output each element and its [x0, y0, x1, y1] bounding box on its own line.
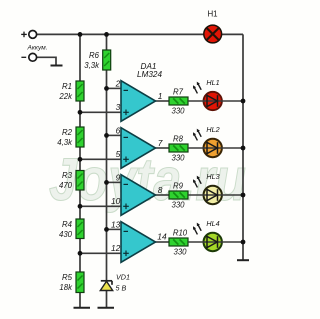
node right row2 [241, 146, 246, 151]
lamp H1 [204, 10, 222, 43]
svg-text:4,3k: 4,3k [57, 138, 73, 147]
svg-text:H1: H1 [207, 10, 217, 19]
svg-text:Аккум.: Аккум. [27, 44, 48, 51]
LED HL4 [188, 219, 243, 251]
svg-text:R9: R9 [173, 182, 184, 191]
svg-text:9: 9 [116, 172, 121, 182]
svg-text:8: 8 [158, 185, 163, 195]
node right row1 [241, 99, 246, 104]
node mid pin2 [104, 86, 109, 91]
svg-text:HL1: HL1 [206, 78, 219, 87]
svg-text:330: 330 [173, 248, 187, 257]
wire minus terminal to ground [37, 57, 56, 65]
wire row2 output [156, 147, 170, 149]
wire op4 minus input [107, 228, 122, 230]
node left pin3 [78, 110, 83, 115]
svg-text:22k: 22k [58, 92, 73, 101]
op-amp U3 (DA1.3) [111, 172, 163, 215]
svg-text:10: 10 [111, 196, 121, 206]
svg-text:7: 7 [158, 138, 163, 148]
zener diode VD1 [100, 273, 130, 293]
resistor R7 [169, 88, 188, 116]
ground bar battery [51, 65, 63, 67]
resistor R4 [59, 219, 84, 239]
resistor R9 [169, 182, 188, 210]
wire H1 to right rail [222, 33, 243, 35]
svg-text:3,3k: 3,3k [84, 61, 100, 70]
svg-text:R5: R5 [62, 273, 73, 282]
terminal - [29, 53, 37, 61]
svg-text:12: 12 [111, 243, 121, 253]
node mid pin13 [104, 227, 109, 232]
wire op1 minus input [107, 87, 122, 89]
wire op4 plus input [80, 252, 121, 254]
resistor R6 [84, 50, 110, 70]
ground bar left rail [74, 307, 91, 309]
resistor R3 [59, 171, 84, 191]
svg-text:5: 5 [116, 149, 121, 159]
wire row1 output [156, 100, 170, 102]
svg-text:R4: R4 [62, 220, 73, 229]
svg-text:6: 6 [116, 125, 121, 135]
svg-text:R6: R6 [89, 51, 100, 60]
svg-text:5 В: 5 В [116, 283, 127, 292]
wire op3 plus input [80, 205, 121, 207]
svg-text:R2: R2 [62, 128, 73, 137]
resistor R8 [169, 135, 188, 163]
svg-text:R1: R1 [62, 82, 72, 91]
node right row4 [241, 240, 246, 245]
node left pin12 [78, 251, 83, 256]
node left pin10 [78, 204, 83, 209]
wire row3 output [156, 194, 170, 196]
svg-text:LM324: LM324 [137, 70, 162, 79]
wire op2 plus input [80, 158, 121, 160]
wire op3 minus input [107, 181, 122, 183]
wire right rail [242, 34, 244, 259]
svg-text:1: 1 [158, 91, 163, 101]
wire mid rail [106, 34, 108, 307]
ground bar mid rail [98, 307, 115, 309]
svg-text:330: 330 [171, 107, 185, 116]
node mid pin9 [104, 180, 109, 185]
resistor R5 [59, 272, 84, 293]
svg-text:330: 330 [171, 201, 185, 210]
svg-text:R10: R10 [173, 229, 188, 238]
op-amp U2 (DA1.2) [116, 125, 163, 168]
op-amp U1 (DA1.1) [115, 78, 163, 121]
resistor R1 [58, 81, 84, 101]
node left pin5 [78, 157, 83, 162]
svg-text:R7: R7 [173, 88, 184, 97]
LED HL1 [188, 78, 243, 110]
wire row4 output [156, 241, 170, 243]
svg-text:VD1: VD1 [116, 273, 130, 282]
svg-text:HL3: HL3 [206, 172, 219, 181]
wire left rail [79, 34, 81, 307]
wire op1 plus input [80, 111, 121, 113]
node mid pin6 [104, 133, 109, 138]
svg-text:470: 470 [59, 181, 73, 190]
svg-text:HL4: HL4 [206, 219, 219, 228]
svg-text:HL2: HL2 [206, 125, 219, 134]
wire top rail [37, 33, 204, 35]
LED HL2 [188, 125, 243, 157]
op-amp U4 (DA1.4) [111, 219, 167, 262]
node top-left rail [78, 32, 83, 37]
svg-text:14: 14 [157, 232, 167, 242]
svg-text:R3: R3 [62, 171, 73, 180]
resistor R10 [169, 229, 188, 257]
LED HL3 [188, 172, 243, 204]
svg-text:430: 430 [59, 230, 73, 239]
svg-text:18k: 18k [59, 283, 73, 292]
resistor R2 [57, 127, 84, 147]
svg-text:3: 3 [116, 102, 121, 112]
node right row3 [241, 193, 246, 198]
svg-text:330: 330 [171, 154, 185, 163]
wire op2 minus input [107, 134, 122, 136]
ground bar right rail [237, 259, 249, 261]
terminal + [29, 31, 37, 39]
svg-text:2: 2 [115, 78, 121, 88]
node top-mid rail [104, 32, 109, 37]
svg-text:13: 13 [111, 219, 121, 229]
svg-text:R8: R8 [173, 135, 184, 144]
